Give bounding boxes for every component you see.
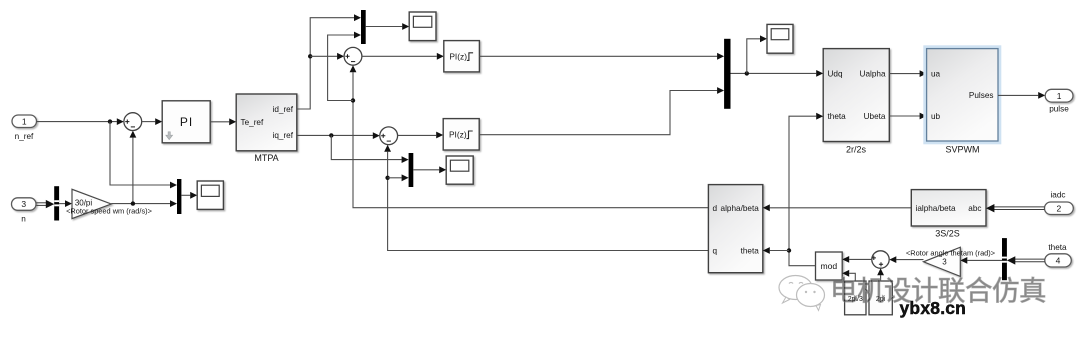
- wire d feedback from alpha/beta block to sum2 bottom: [353, 72, 708, 207]
- sum junction U1 (speed error): [124, 113, 142, 131]
- node junction iq_ref: [329, 133, 333, 137]
- bus wire theta to selector2 (double line): [1014, 258, 1045, 260]
- wire mux4 to 2r/2s Udq: [731, 72, 817, 74]
- sum junction U3 (iq error): [380, 127, 398, 145]
- scope3: [446, 156, 473, 184]
- wire Ubeta to SVPWM ub: [889, 115, 919, 117]
- svg-text:mod: mod: [820, 261, 837, 271]
- wire iq_ref from MTPA to sum3: [297, 134, 373, 136]
- sum junction U2 (id error): [344, 47, 362, 65]
- svg-text:theta: theta: [828, 112, 847, 121]
- node junction theta: [787, 248, 791, 252]
- svg-text:MTPA: MTPA: [254, 153, 278, 163]
- wire mux3 to scope2: [366, 26, 403, 28]
- wire selector2 to gain 3: [967, 259, 1002, 261]
- svg-text:ialpha/beta: ialpha/beta: [916, 204, 957, 213]
- svg-text:abc: abc: [968, 204, 981, 213]
- wire wm feedback up into sum1 bottom: [132, 138, 134, 204]
- svg-text:3: 3: [942, 258, 947, 267]
- PI(z) controller 2: [443, 119, 479, 150]
- node junction q feedback: [385, 176, 389, 180]
- scope4: [767, 24, 793, 53]
- mux2 (scope mux): [177, 179, 181, 214]
- MTPA subsystem block: [236, 94, 297, 163]
- svg-text:4: 4: [1056, 256, 1061, 266]
- wire sum4 to mod: [849, 258, 872, 260]
- svg-text:alpha/beta: alpha/beta: [721, 204, 760, 213]
- svg-text:<Rotor angle thetam (rad)>: <Rotor angle thetam (rad)>: [906, 249, 995, 258]
- wire id_ref branch to sum2: [310, 55, 337, 57]
- wire Pulses to outport pulse: [998, 94, 1038, 96]
- SVPWM subsystem block (selected, blue border): [925, 47, 1000, 155]
- wire sum1 to PI: [142, 121, 156, 123]
- node junction d feedback: [351, 98, 355, 102]
- wire q feedback branch to mux5 input2: [388, 177, 402, 179]
- svg-text:3: 3: [21, 199, 26, 209]
- node junction id_ref: [308, 54, 312, 58]
- wire gain to mux2: [111, 203, 170, 205]
- node junction wm: [131, 201, 135, 205]
- PI controller block: [162, 101, 210, 143]
- wire sum3 to PI(z)2: [398, 134, 437, 136]
- svg-text:Te_ref: Te_ref: [241, 118, 264, 127]
- wire PI(z)2 to mux4 input2: [479, 91, 717, 135]
- 3S/2S subsystem block: [911, 190, 986, 239]
- mux3 (id scope mux): [361, 10, 366, 44]
- svg-text:n: n: [21, 215, 26, 224]
- svg-text:iq_ref: iq_ref: [273, 131, 294, 140]
- svg-text:pulse: pulse: [1049, 105, 1069, 114]
- gain 3 triangle (mirrored): [924, 247, 961, 276]
- constant block 2*pi/3: [845, 281, 866, 315]
- wire iq_ref branch to mux5 input1: [331, 135, 401, 159]
- wire sum2 to PI(z)1: [362, 55, 437, 57]
- svg-text:Pulses: Pulses: [969, 91, 994, 100]
- node junction n_ref branch: [108, 119, 112, 123]
- outport 1 pulse: [1045, 89, 1073, 113]
- 2r/2s subsystem block: [823, 49, 889, 155]
- bus wire n to selector1 (double line): [37, 202, 47, 204]
- svg-text:Udq: Udq: [828, 70, 843, 79]
- wire q feedback from alpha/beta block to sum3 bottom: [388, 152, 709, 251]
- wire constant2 to sum4 bottom: [880, 275, 882, 281]
- wire id_ref from MTPA up to mux3 top input: [297, 18, 354, 109]
- svg-text:2r/2s: 2r/2s: [846, 145, 867, 155]
- svg-text:3S/2S: 3S/2S: [935, 229, 960, 239]
- inport 1 n_ref: [12, 115, 37, 141]
- inport 2 iadc: [1045, 191, 1074, 215]
- svg-text:n_ref: n_ref: [15, 132, 34, 141]
- wire PI to MTPA Te_ref: [210, 121, 229, 123]
- selector block (bar) for theta: [1002, 238, 1007, 280]
- wire n_ref to sum1: [37, 121, 117, 123]
- wire mux5 to scope3: [413, 169, 439, 171]
- svg-text:PI: PI: [180, 115, 193, 129]
- svg-text:ub: ub: [931, 112, 941, 121]
- wire theta net from mod output to 2r/2s theta and alpha/beta theta: [789, 116, 816, 266]
- bus wire iadc to abc (double line): [993, 206, 1044, 208]
- svg-text:Ubeta: Ubeta: [864, 112, 886, 121]
- svg-text:id_ref: id_ref: [273, 105, 294, 114]
- svg-text:1: 1: [22, 116, 27, 126]
- wire n_ref branch down to mux2 top input: [110, 122, 170, 185]
- mux4 (Udq mux): [724, 39, 730, 109]
- wire PI(z)1 to mux4 input1: [479, 55, 717, 57]
- svg-text:1: 1: [1057, 91, 1062, 101]
- svg-text:<Rotor speed wm (rad/s)>: <Rotor speed wm (rad/s)>: [66, 206, 152, 215]
- constant block 2*pi: [869, 281, 892, 315]
- node junction Udq: [745, 71, 749, 75]
- watermark wechat logo: [779, 276, 825, 311]
- svg-text:PI(z): PI(z): [449, 130, 467, 140]
- svg-text:q: q: [713, 247, 718, 256]
- svg-text:iadc: iadc: [1050, 191, 1065, 200]
- scope1: [197, 181, 223, 209]
- wire ialpha/beta output to alpha/beta input: [770, 207, 912, 209]
- wire d feedback branch to mux3 input2: [328, 35, 355, 101]
- svg-text:theta: theta: [1048, 243, 1067, 252]
- svg-text:theta: theta: [741, 247, 760, 256]
- alpha/beta dq transform block (mirrored): [708, 185, 762, 273]
- scope2: [409, 12, 436, 41]
- svg-text:2: 2: [1057, 203, 1062, 213]
- svg-text:Ualpha: Ualpha: [860, 70, 886, 79]
- wire gain3 to sum4: [896, 259, 923, 261]
- inport 4 theta: [1045, 243, 1072, 267]
- wire Ualpha to SVPWM ua: [889, 73, 919, 75]
- mux5 (iq scope mux): [409, 153, 414, 187]
- wire Udq branch to scope4: [747, 39, 760, 74]
- wire mux2 to scope1: [181, 194, 190, 196]
- svg-text:ua: ua: [931, 70, 941, 79]
- svg-text:SVPWM: SVPWM: [945, 145, 979, 155]
- svg-text:ybx8.cn: ybx8.cn: [900, 298, 967, 318]
- svg-text:PI(z): PI(z): [449, 51, 467, 61]
- selector block (bar) for n: [54, 186, 59, 220]
- PI(z) controller 1: [444, 41, 480, 72]
- mod function block: [816, 252, 843, 280]
- wire selector1 to gain 30/pi: [59, 203, 65, 205]
- sum junction U4 (angle offset): [872, 251, 890, 268]
- gain 30/pi triangle: [72, 189, 111, 218]
- wire constant1 to mod input2: [849, 273, 855, 281]
- inport 3 n: [12, 198, 37, 224]
- wire theta branch to alpha/beta theta input: [770, 250, 789, 252]
- svg-text:d: d: [713, 204, 718, 213]
